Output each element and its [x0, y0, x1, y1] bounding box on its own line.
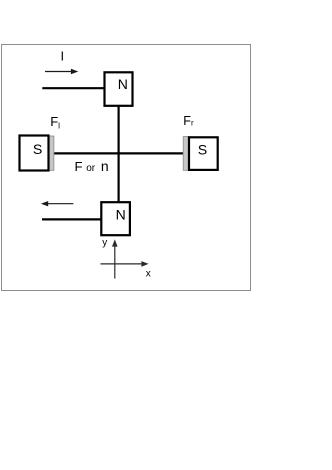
- force arrow left: [41, 201, 74, 206]
- svg-text:S: S: [33, 142, 42, 158]
- current direction arrow: [45, 69, 78, 74]
- wire top lead: [42, 87, 105, 89]
- wire bottom lead: [42, 218, 102, 220]
- x axis arrow: [101, 261, 149, 267]
- wire vertical segment: [117, 105, 119, 203]
- svg-text:x: x: [146, 269, 151, 280]
- magnet S left: [20, 136, 54, 171]
- magnet S right: [183, 137, 218, 171]
- magnet N bottom: [101, 202, 130, 235]
- y axis arrow: [112, 239, 118, 278]
- magnet N top: [105, 72, 133, 106]
- wire horizontal segment: [54, 152, 184, 154]
- svg-text:N: N: [118, 76, 128, 92]
- svg-text:y: y: [102, 238, 107, 249]
- svg-text:S: S: [198, 143, 207, 159]
- svg-text:I: I: [60, 49, 64, 64]
- svg-text:N: N: [116, 207, 126, 223]
